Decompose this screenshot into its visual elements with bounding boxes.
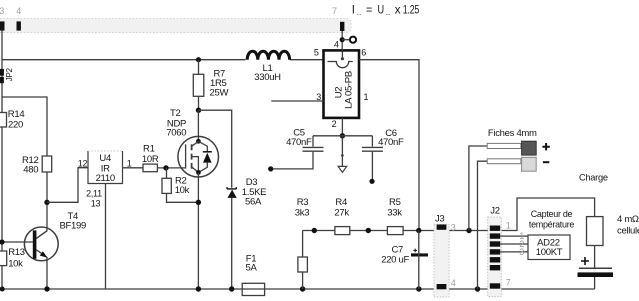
svg-text:cellule: cellule bbox=[617, 226, 639, 237]
svg-text:J3: J3 bbox=[435, 213, 444, 224]
wire: left vertical net from pin 3 bbox=[1, 31, 3, 289]
svg-text:Charge: Charge bbox=[579, 173, 608, 183]
svg-text:4 mΩ: 4 mΩ bbox=[617, 214, 639, 225]
temperature sensor AD22 bbox=[528, 209, 574, 260]
node: plug+ junction bbox=[466, 228, 471, 233]
svg-text:température: température bbox=[529, 220, 575, 230]
wire: plug + bbox=[469, 146, 487, 231]
svg-text:3: 3 bbox=[316, 92, 321, 102]
svg-text:R1: R1 bbox=[143, 143, 155, 154]
svg-text:13: 13 bbox=[91, 198, 101, 208]
resistor R14 bbox=[0, 109, 24, 131]
svg-text:=: = bbox=[366, 5, 373, 17]
capacitor C6 bbox=[362, 128, 404, 184]
node: R3 on rail bbox=[300, 286, 305, 291]
node: collector/HIN junction bbox=[44, 200, 49, 205]
resistor R7 bbox=[193, 60, 228, 110]
wire: drain to D3 bbox=[199, 110, 232, 188]
svg-text:J2: J2 bbox=[490, 205, 499, 216]
wire: U2 pin 6 to divider bbox=[359, 60, 419, 231]
svg-text:1: 1 bbox=[506, 221, 511, 231]
svg-text:R13: R13 bbox=[8, 247, 25, 258]
svg-text:2110: 2110 bbox=[96, 173, 115, 184]
banana plug + bbox=[487, 128, 550, 155]
node: rail left corner bbox=[0, 287, 5, 292]
svg-text:2: 2 bbox=[332, 119, 337, 129]
svg-text:...: ... bbox=[386, 11, 391, 17]
svg-text:330uH: 330uH bbox=[254, 72, 281, 83]
resistor R2 bbox=[162, 168, 198, 202]
svg-text:2,11: 2,11 bbox=[86, 188, 102, 198]
svg-text:33k: 33k bbox=[387, 207, 402, 218]
ground bbox=[338, 136, 347, 173]
node: base tap bbox=[0, 239, 5, 244]
formula Iout = Uref x 1.25 bbox=[352, 5, 419, 17]
svg-text:6: 6 bbox=[361, 48, 366, 58]
node: drain / D3 junction bbox=[196, 108, 201, 113]
svg-text:480: 480 bbox=[23, 165, 38, 176]
resistor R4 bbox=[334, 197, 349, 235]
svg-text:R4: R4 bbox=[335, 197, 347, 208]
svg-text:4: 4 bbox=[451, 278, 456, 288]
svg-text:JP2: JP2 bbox=[5, 67, 14, 81]
regulator U2 LA05-PB bbox=[324, 50, 360, 118]
svg-text:56A: 56A bbox=[245, 197, 262, 208]
wire: band pin7 to U2 pin 4 bbox=[341, 31, 343, 50]
banana plug - bbox=[487, 157, 549, 171]
node: gate/R2 junction bbox=[163, 165, 168, 170]
svg-text:27k: 27k bbox=[334, 207, 349, 218]
resistor R5 bbox=[387, 197, 403, 235]
pin 4 (band) bbox=[17, 21, 21, 30]
svg-text:3: 3 bbox=[519, 247, 524, 257]
connector band (top header strip) bbox=[0, 19, 351, 33]
fuse F1 bbox=[242, 254, 264, 296]
node: sense junction bbox=[416, 228, 421, 233]
svg-text:R3: R3 bbox=[297, 197, 309, 208]
svg-text:R14: R14 bbox=[8, 109, 25, 120]
wire: C7 to rail bbox=[418, 231, 420, 290]
resistor R13 bbox=[0, 247, 25, 270]
svg-text:1: 1 bbox=[127, 158, 132, 168]
svg-text:470nF: 470nF bbox=[378, 137, 404, 148]
node: minus plug on rail bbox=[475, 286, 480, 291]
wire: top rail bbox=[2, 59, 324, 61]
svg-text:...: ... bbox=[357, 11, 362, 17]
pin 7 (band) bbox=[340, 22, 344, 31]
svg-text:3: 3 bbox=[0, 6, 4, 16]
svg-text:7: 7 bbox=[506, 277, 511, 287]
jumper JP2 bbox=[0, 67, 14, 83]
svg-text:7: 7 bbox=[332, 6, 337, 16]
svg-text:R5: R5 bbox=[389, 197, 401, 208]
svg-text:BF199: BF199 bbox=[59, 220, 86, 231]
svg-text:5: 5 bbox=[314, 48, 319, 58]
svg-text:220 uF: 220 uF bbox=[381, 255, 409, 266]
svg-text:Fiches 4mm: Fiches 4mm bbox=[488, 128, 537, 139]
svg-text:220: 220 bbox=[8, 120, 23, 131]
svg-text:4: 4 bbox=[334, 40, 339, 50]
capacitor C5 bbox=[268, 128, 323, 172]
svg-text:3: 3 bbox=[451, 222, 456, 232]
svg-text:1.25: 1.25 bbox=[403, 5, 419, 17]
inductor L1 bbox=[247, 51, 289, 83]
load resistor 4 mOhm bbox=[587, 214, 639, 246]
svg-text:470nF: 470nF bbox=[286, 137, 312, 148]
svg-text:1: 1 bbox=[364, 92, 369, 102]
svg-text:3k3: 3k3 bbox=[295, 207, 309, 218]
transistor T4 symbol bbox=[2, 227, 58, 289]
node: C7 on rail bbox=[416, 286, 421, 291]
wire: U4 pin 1 to R1 bbox=[123, 167, 144, 169]
wire: plug - bbox=[478, 161, 488, 289]
wire: C5-C6 net bbox=[313, 135, 372, 137]
wire: U2 pin 3 stub bbox=[271, 100, 323, 102]
svg-text:10k: 10k bbox=[175, 185, 190, 196]
battery cell bbox=[578, 246, 614, 290]
wires: J2 pins to AD22 bbox=[500, 236, 528, 252]
wire: junction to U4 pin 12 bbox=[47, 168, 88, 203]
connector J2 bbox=[488, 205, 511, 296]
node: T4 emitter on rail bbox=[44, 286, 49, 291]
op-amp/driver U4 IR2110 bbox=[88, 151, 123, 184]
node: R3/R4 junction bbox=[312, 228, 317, 233]
svg-text:x: x bbox=[395, 5, 401, 17]
node: source/R2 junction bbox=[196, 200, 201, 205]
svg-text:T2: T2 bbox=[170, 108, 181, 119]
resistor R1 bbox=[142, 143, 159, 171]
svg-text:25W: 25W bbox=[210, 87, 229, 98]
bottom rail bbox=[2, 288, 595, 290]
wire: source to bottom rail bbox=[197, 172, 199, 289]
svg-text:5A: 5A bbox=[245, 262, 257, 273]
svg-text:10R: 10R bbox=[142, 154, 159, 165]
open terminal ring bbox=[350, 37, 356, 43]
svg-text:12: 12 bbox=[78, 158, 88, 168]
node: D3 on rail bbox=[229, 286, 234, 291]
resistor R3 bbox=[295, 197, 309, 289]
node: source on rail bbox=[196, 286, 201, 291]
svg-text:7060: 7060 bbox=[166, 128, 186, 139]
pin 3 (band) bbox=[0, 21, 5, 30]
capacitor C7 bbox=[381, 245, 428, 266]
wire: to open terminal bbox=[342, 39, 350, 41]
wire: U4 ground pin to bottom rail bbox=[105, 184, 107, 290]
svg-text:U4: U4 bbox=[99, 153, 111, 164]
svg-text:10k: 10k bbox=[8, 258, 23, 269]
diode D3 (TVS) bbox=[227, 177, 266, 289]
wire: R1 to gate bbox=[157, 167, 185, 169]
wire: R12 to T4 collector bbox=[36, 172, 47, 238]
resistor R12 bbox=[22, 155, 52, 176]
svg-text:100KT: 100KT bbox=[536, 247, 563, 258]
svg-text:Capteur de: Capteur de bbox=[531, 209, 573, 219]
transistor T2 symbol bbox=[178, 110, 219, 177]
wire: U2 pin 2 down bbox=[341, 118, 343, 136]
node: pin4 junction bbox=[340, 37, 345, 42]
connector J3 bbox=[434, 213, 456, 297]
divider row wire bbox=[303, 198, 595, 231]
svg-text:I: I bbox=[352, 5, 355, 17]
wire: R12 branch bbox=[2, 97, 47, 156]
svg-text:4: 4 bbox=[16, 6, 21, 16]
svg-text:U: U bbox=[378, 5, 384, 17]
node: top rail / R7 junction bbox=[196, 57, 201, 62]
node: R4/R5 junction bbox=[366, 228, 371, 233]
node: pin2 / C5 C6 junction bbox=[340, 133, 345, 138]
svg-text:LA 05-PB: LA 05-PB bbox=[344, 71, 355, 109]
